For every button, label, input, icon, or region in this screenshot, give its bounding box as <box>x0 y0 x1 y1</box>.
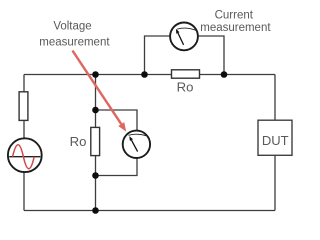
junction ammeter branch left <box>141 71 148 78</box>
annotation arrow voltage <box>72 51 126 132</box>
svg-text:Ro: Ro <box>177 80 194 95</box>
junction voltmeter top <box>92 107 99 114</box>
svg-text:Ro: Ro <box>70 134 87 149</box>
ammeter M1 <box>170 23 198 51</box>
wire ammeter bypass branch <box>145 36 225 75</box>
junction voltmeter bottom <box>92 172 99 179</box>
resistor Ro shunt <box>91 127 100 155</box>
svg-text:measurement: measurement <box>200 22 271 34</box>
wire right rail <box>274 75 276 211</box>
label Current measurement <box>200 10 271 34</box>
DUT box <box>258 120 292 155</box>
wire voltmeter bottom link <box>96 157 138 176</box>
wire left rail <box>23 75 25 211</box>
junction ammeter branch right <box>221 71 228 78</box>
wire top rail <box>24 74 275 76</box>
wire voltmeter top link <box>96 110 138 132</box>
svg-text:DUT: DUT <box>262 133 289 148</box>
svg-text:Voltage: Voltage <box>53 21 91 33</box>
wire middle branch <box>95 75 97 211</box>
AC source V1 <box>8 138 42 172</box>
svg-text:Current: Current <box>215 10 254 22</box>
junction bottom rail <box>92 207 99 214</box>
resistor Ro series <box>172 70 200 78</box>
wire bottom rail <box>24 210 275 212</box>
junction top-middle <box>92 71 99 78</box>
voltmeter M2 <box>123 131 150 158</box>
label Voltage measurement <box>39 21 110 49</box>
resistor source internal <box>19 92 28 121</box>
svg-text:measurement: measurement <box>39 36 110 48</box>
